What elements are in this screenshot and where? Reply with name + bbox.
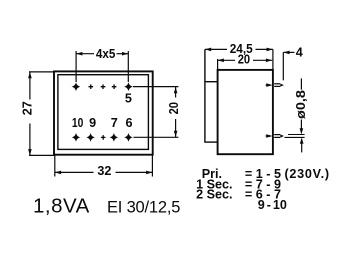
svg-text:4: 4	[296, 46, 303, 60]
diameter 0,8 lower arrow	[301, 144, 303, 153]
pin diameter upper extension line	[288, 134, 305, 136]
32 dimension right extension line	[151, 155, 153, 177]
27 dimension bottom extension line	[29, 154, 55, 156]
transformer top-view inner case rectangle	[58, 75, 148, 150]
20 dimension line (right of top view)	[175, 87, 177, 98]
side view body rectangle	[218, 70, 273, 154]
24,5 dimension line	[205, 48, 227, 50]
unused pin position 8	[101, 135, 106, 140]
body right edge extension up to 24,5 dim	[272, 49, 274, 70]
svg-text:7: 7	[111, 116, 118, 130]
4x5 dimension left extension line	[75, 51, 77, 82]
27 dimension line	[29, 72, 31, 100]
pin 5 (top row, solder star)	[124, 82, 133, 91]
32 dimension left extension line	[54, 155, 56, 176]
4 dimension extension line down to pin tip	[282, 52, 284, 80]
pin 7 (bottom row, solder star)	[110, 133, 119, 142]
4x5 dimension right extension line	[127, 51, 129, 82]
flange bottom edge	[204, 141, 217, 143]
pin diameter lower extension line	[285, 136, 305, 138]
svg-text:32: 32	[97, 164, 111, 178]
svg-text:6: 6	[125, 116, 132, 130]
unused pin position 4	[112, 84, 117, 89]
pin 10 (bottom row, solder star)	[72, 133, 81, 142]
pin 1 (top row, solder star)	[72, 82, 81, 91]
svg-text:ø0,8: ø0,8	[294, 90, 308, 119]
20 dimension line (side view)	[218, 59, 235, 61]
transformer top-view outer case rectangle	[54, 71, 153, 154]
svg-text:9: 9	[89, 116, 96, 130]
27 dimension top extension line	[29, 71, 54, 73]
svg-text:27: 27	[21, 101, 35, 115]
diameter 0,8 dimension line to upper edge	[300, 120, 302, 131]
4 dimension line with left arrow	[283, 51, 294, 53]
pin 9 (bottom row, solder star)	[86, 133, 95, 142]
svg-text:20: 20	[167, 102, 181, 114]
diameter 0,8 dimension tail above text	[300, 78, 302, 89]
pin 5 leader line	[133, 86, 178, 88]
svg-text:10: 10	[72, 116, 84, 130]
svg-text:4x5: 4x5	[96, 47, 116, 61]
32 dimension line	[55, 171, 94, 173]
pin 6 leader line	[134, 136, 179, 138]
top pin outline	[274, 83, 280, 85]
unused pin position 2	[89, 84, 94, 89]
flange top edge	[205, 81, 218, 83]
bottom pin tip	[280, 134, 284, 137]
side view lamination flange left edge + 24,5 extension	[204, 49, 206, 142]
svg-text:EI 30/12,5: EI 30/12,5	[107, 198, 180, 216]
bottom pin pointer arrow	[266, 135, 271, 137]
svg-text:20: 20	[238, 53, 250, 67]
unused pin position 3	[101, 84, 106, 89]
body left edge extension up to 20 dim	[217, 59, 219, 70]
top pin pointer arrow	[266, 84, 271, 86]
svg-text:1,8VA: 1,8VA	[33, 194, 90, 217]
top pin tip	[280, 84, 284, 87]
4x5 dimension line	[76, 53, 94, 55]
bottom pin outline	[274, 134, 280, 136]
svg-text:9 - 10: 9 - 10	[258, 198, 287, 212]
pin 6 (bottom row, solder star)	[124, 133, 133, 142]
svg-text:5: 5	[125, 92, 132, 106]
svg-text:2 Sec.: 2 Sec.	[196, 188, 232, 202]
